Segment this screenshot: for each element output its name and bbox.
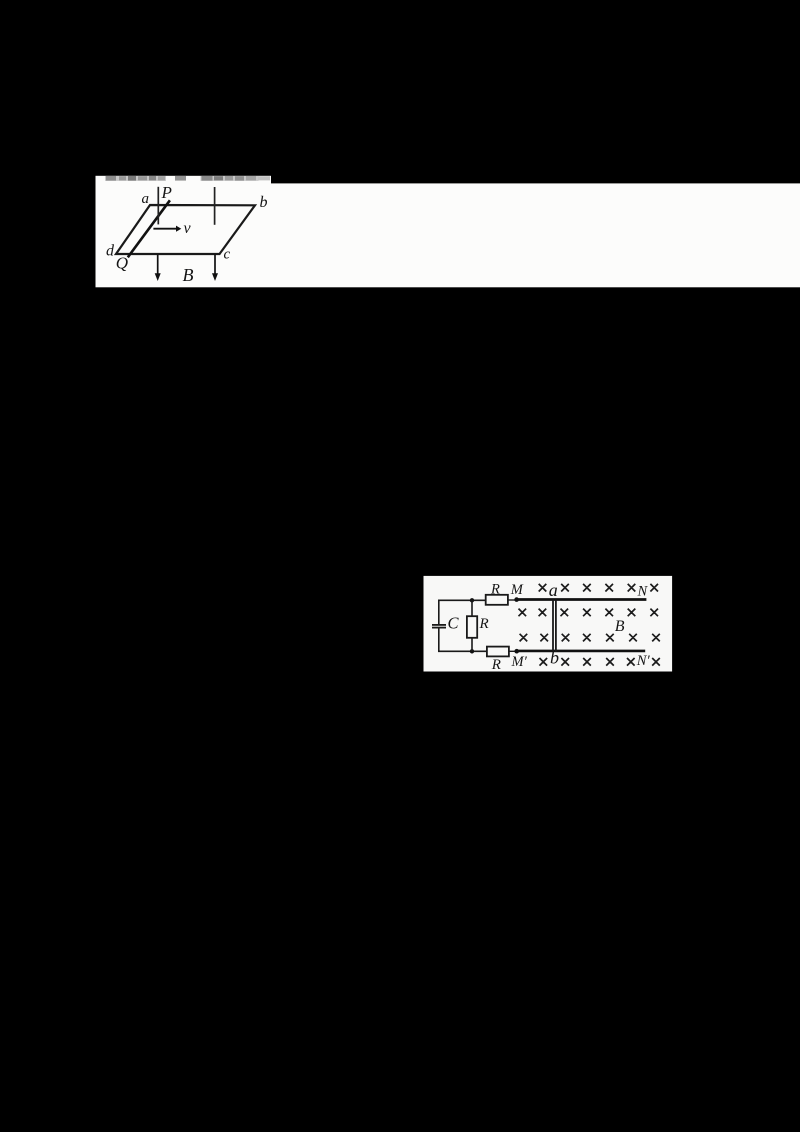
rail M' to N' [517,650,646,653]
svg-text:a: a [549,580,558,600]
svg-text:R: R [490,582,500,598]
svg-text:P: P [161,183,172,202]
scan white panel for figure 2 [424,576,673,672]
node M [514,597,519,602]
scan white band for figure 1 [96,176,272,287]
wire to resistor R vertical top [471,600,473,616]
svg-text:M′: M′ [511,654,528,670]
field line 1 (above plane) [157,187,159,225]
resistor R top box [486,595,508,605]
svg-text:R: R [479,616,489,632]
svg-text:d: d [106,242,115,259]
wire left vertical above capacitor [438,600,440,625]
field arrow 2 (below plane) [212,254,218,281]
cut-off text scan noise strip [105,176,270,181]
velocity arrow v [153,226,181,232]
svg-text:C: C [448,614,460,633]
node junction top [470,598,474,602]
wire from resistor R vertical bottom [471,638,473,652]
node junction bottom [470,649,474,653]
svg-text:b: b [260,194,268,211]
svg-text:v: v [184,220,192,237]
wire bottom left horizontal [438,650,487,652]
conducting plane loop abcd [116,205,255,254]
svg-text:c: c [224,247,231,263]
svg-text:B: B [615,618,625,635]
rail M to N [517,598,647,601]
resistor R bottom box [487,647,509,657]
svg-text:Q: Q [116,253,128,272]
svg-text:R: R [491,657,501,673]
wire bottom resistor to M' [509,650,517,652]
capacitor C [432,625,446,628]
magnetic field B cross marks [519,584,660,666]
svg-text:B: B [183,265,194,285]
wire top resistor to M [508,599,517,601]
resistor R vertical box [467,616,477,638]
svg-text:N′: N′ [636,653,651,669]
wire left vertical below capacitor [438,628,440,652]
wire top left horizontal [438,599,486,601]
node M' [514,649,519,654]
svg-text:b: b [550,648,559,668]
rod PQ [128,200,170,257]
rod ab (double line) [553,599,556,652]
svg-text:a: a [142,191,150,207]
field line 2 (above plane) [214,187,216,225]
svg-text:M: M [510,582,524,598]
svg-text:N: N [637,583,649,599]
field arrow 1 (below plane) [155,254,161,281]
